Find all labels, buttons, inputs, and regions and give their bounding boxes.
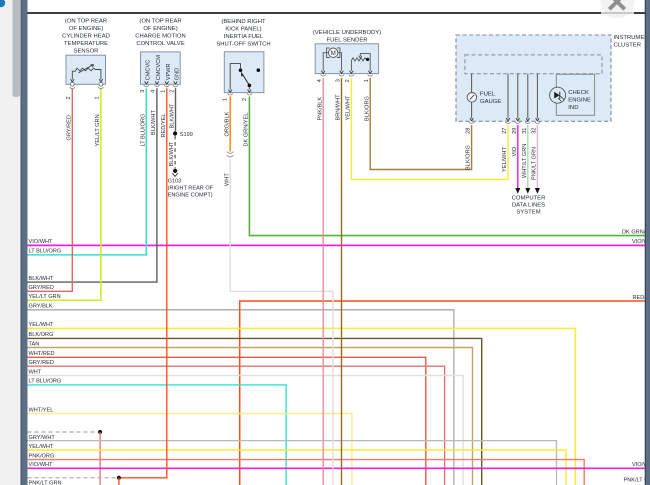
close button circle [601, 0, 635, 19]
svg-text:3: 3 [335, 79, 341, 82]
svg-text:(ON TOP REAR: (ON TOP REAR [65, 19, 107, 25]
svg-text:INERTIA FUEL: INERTIA FUEL [224, 34, 264, 40]
svg-text:2: 2 [345, 79, 351, 82]
svg-text:PNK/LT GRN: PNK/LT GRN [29, 481, 62, 485]
svg-text:CMCVC: CMCVC [145, 60, 151, 81]
svg-text:TAN: TAN [29, 341, 40, 347]
svg-text:RED/: RED/ [633, 295, 647, 301]
left slate bar [21, 0, 28, 485]
svg-text:DATA LINES: DATA LINES [512, 203, 545, 209]
wire BLK/WHT (bus to valve pin 4) [28, 88, 157, 282]
wire GRY/WHT dashed stub [28, 431, 98, 433]
svg-text:G103: G103 [168, 178, 182, 184]
svg-text:SHUT-OFF SWITCH: SHUT-OFF SWITCH [216, 42, 270, 48]
svg-text:LT BLU/ORG: LT BLU/ORG [29, 379, 62, 385]
svg-text:PNK/LT G: PNK/LT G [624, 478, 649, 484]
wire PNK/BLK (sender pin 4 down off-page) [322, 78, 324, 485]
svg-text:BLK/ORG: BLK/ORG [29, 332, 54, 338]
svg-text:TEMPERATURE: TEMPERATURE [64, 41, 108, 47]
svg-text:LT BLU/ORG: LT BLU/ORG [29, 249, 62, 255]
svg-text:M: M [331, 51, 336, 57]
svg-text:4: 4 [151, 90, 157, 93]
wire GRY/WHT (solid bus turning down) [28, 441, 557, 485]
wire BRN/WHT (sender pin 3 down off-page) [341, 78, 343, 485]
svg-text:PNK/LT GRN: PNK/LT GRN [532, 147, 538, 180]
svg-text:COMPUTER: COMPUTER [512, 196, 546, 202]
wire YEL/LT GRN (bus to sensor pin 1) [28, 89, 101, 300]
wire RED/YEL (valve pin 1 long run to bottom splice) [119, 88, 167, 485]
svg-text:CHARGE MOTION: CHARGE MOTION [135, 34, 185, 40]
svg-text:BLK/WHT: BLK/WHT [151, 110, 157, 135]
svg-text:WHT: WHT [224, 173, 230, 186]
ground G103 [173, 169, 177, 173]
wire PNK/LT GRN (cluster pin 32 to data lines) [536, 125, 538, 189]
svg-text:(VEHICLE UNDERBODY): (VEHICLE UNDERBODY) [313, 30, 381, 36]
svg-text:VIO/WHT: VIO/WHT [29, 239, 54, 245]
svg-text:3: 3 [140, 90, 146, 93]
wire BLK/ORG (sender pin 1 to cluster pin 28) [370, 78, 471, 170]
wire WHT/RED (bus turning down) [28, 357, 426, 485]
wire RED (right edge to vertical) [240, 301, 645, 485]
wire WHT (from connector, jog right, down off-page) [230, 159, 333, 485]
svg-text:27: 27 [502, 128, 508, 134]
check engine ind [556, 74, 594, 115]
wire LT BLU/ORG (lower bus turning down) [28, 385, 287, 485]
wire LT BLU/ORG (upper bus to valve pin 3) [28, 88, 147, 255]
wire YEL/WHT (lower bus turning down) [28, 450, 567, 485]
svg-text:CLUSTER: CLUSTER [614, 42, 642, 48]
svg-text:WHT/LT GRN: WHT/LT GRN [522, 144, 528, 178]
wire YEL/WHT (bus turning down) [28, 328, 576, 485]
svg-text:1: 1 [95, 96, 101, 99]
svg-text:VIO/WHT: VIO/WHT [29, 462, 54, 468]
svg-text:VIO: VIO [512, 146, 518, 156]
left gray gutter [0, 0, 21, 485]
svg-text:YEL/LT GRN: YEL/LT GRN [95, 114, 101, 146]
svg-text:PNK/BLK: PNK/BLK [317, 97, 323, 121]
wire BLK/WHT dashed to ground [174, 136, 176, 169]
svg-text:GAUGE: GAUGE [480, 99, 501, 105]
svg-text:S199: S199 [180, 132, 193, 138]
cluster pin arrows [470, 118, 474, 121]
svg-text:PNK/ORG: PNK/ORG [29, 453, 55, 459]
svg-text:WHT: WHT [29, 369, 42, 375]
svg-text:GRY/RED: GRY/RED [29, 285, 54, 291]
svg-text:OF ENGINE): OF ENGINE) [143, 26, 177, 32]
node S199 [173, 131, 177, 135]
wire WHT/YEL (bus turning down) [28, 414, 352, 485]
svg-text:1: 1 [364, 79, 370, 82]
fuel sender [313, 30, 381, 83]
svg-text:VPWR: VPWR [166, 63, 172, 80]
inertia fuel shut-off switch [216, 19, 270, 101]
svg-text:CYLINDER HEAD: CYLINDER HEAD [62, 34, 110, 40]
svg-text:YEL/WHT: YEL/WHT [29, 444, 54, 450]
svg-text:IND: IND [568, 105, 578, 111]
wire GRY/RED (bus to sensor pin 2) [28, 89, 73, 291]
wire PNK/ORG (bus turning down) [28, 460, 585, 485]
wire GRY/RED descending from splice [99, 432, 101, 485]
wire GRY/BLK (bus turning down) [28, 310, 454, 485]
svg-text:FUEL: FUEL [480, 91, 496, 97]
svg-text:(ON TOP REAR: (ON TOP REAR [139, 19, 181, 25]
svg-text:WHT/RED: WHT/RED [29, 351, 55, 357]
svg-text:YEL/WHT: YEL/WHT [29, 322, 54, 328]
in-line connector on ORG/BLK [227, 152, 234, 157]
svg-text:SYSTEM: SYSTEM [516, 210, 540, 216]
svg-text:BLK/ORG: BLK/ORG [466, 145, 472, 170]
svg-text:2: 2 [169, 90, 175, 93]
svg-text:ORG/BLK: ORG/BLK [224, 111, 230, 136]
svg-text:ENGINE: ENGINE [568, 98, 591, 104]
svg-text:BRN/WHT: BRN/WHT [336, 94, 342, 121]
fuel gauge [467, 93, 477, 103]
svg-text:1: 1 [161, 90, 167, 93]
svg-text:FUEL SENDER: FUEL SENDER [326, 37, 367, 43]
cylinder head temperature sensor [62, 19, 110, 100]
svg-text:KICK PANEL): KICK PANEL) [225, 27, 261, 33]
svg-text:CHECK: CHECK [568, 90, 589, 96]
svg-text:ENGINE COMPT): ENGINE COMPT) [168, 192, 213, 198]
svg-text:GRY/WHT: GRY/WHT [29, 435, 56, 441]
svg-text:28: 28 [466, 128, 472, 134]
svg-text:YEL/WHT: YEL/WHT [346, 95, 352, 120]
svg-text:BLK/WHT: BLK/WHT [169, 141, 175, 166]
wire PNK/LT GRN dashed stub [28, 477, 116, 479]
svg-text:(BEHIND RIGHT: (BEHIND RIGHT [221, 19, 266, 25]
svg-text:DK GRN/YEL: DK GRN/YEL [244, 113, 250, 147]
svg-text:LT BLU/ORG: LT BLU/ORG [140, 114, 146, 147]
instrument cluster [456, 35, 650, 134]
svg-text:BLK/WHT: BLK/WHT [170, 103, 176, 128]
scrollbar thumb [13, 0, 21, 97]
svg-text:4: 4 [317, 79, 323, 82]
charge motion control valve [135, 19, 185, 93]
svg-text:31: 31 [522, 128, 528, 134]
svg-text:YEL/LT GRN: YEL/LT GRN [29, 294, 61, 300]
svg-text:BLK/ORG: BLK/ORG [364, 96, 370, 121]
svg-text:1: 1 [223, 98, 229, 101]
svg-text:YEL/WHT: YEL/WHT [502, 147, 508, 172]
wire WHT/LT GRN (cluster pin 31 to data lines) [527, 125, 529, 189]
svg-text:(RIGHT REAR OF: (RIGHT REAR OF [168, 185, 214, 191]
svg-text:GND: GND [175, 68, 181, 80]
wire YEL/WHT (sender pin 2 to cluster pin 27) [351, 78, 508, 180]
svg-text:2: 2 [66, 96, 72, 99]
svg-text:OF ENGINE): OF ENGINE) [69, 26, 103, 32]
svg-text:INSTRUMENT: INSTRUMENT [614, 35, 650, 41]
svg-text:BLK/WHT: BLK/WHT [29, 276, 54, 282]
node splice dot on PNK/LT GRN [117, 476, 121, 480]
wire GRY/RED (lower bus turning down) [28, 366, 445, 485]
svg-text:CONTROL VALVE: CONTROL VALVE [136, 41, 184, 47]
wire TAN (bus turning down) [28, 348, 473, 485]
wire VIO/WHT (lower bus) [28, 467, 646, 469]
close button X [609, 0, 624, 9]
wire BLK/ORG (bus turning down) [28, 338, 482, 485]
right slate bar [645, 0, 650, 485]
svg-text:SENSOR: SENSOR [74, 49, 99, 55]
svg-text:GRY/RED: GRY/RED [66, 115, 72, 140]
svg-text:WHT/YEL: WHT/YEL [29, 407, 54, 413]
svg-text:GRY/RED: GRY/RED [29, 360, 54, 366]
svg-text:GRY/BLK: GRY/BLK [29, 304, 53, 310]
wire BLK/WHT (valve pin 2 to S199) [175, 88, 177, 131]
svg-text:CMCVCM: CMCVCM [156, 55, 162, 81]
top border line [28, 12, 646, 14]
wire WHT (bus turning down) [28, 376, 464, 485]
wire DK GRN/YEL (switch pin 2 to right edge) [249, 97, 645, 236]
wire VIO/WHT (upper bus) [28, 244, 646, 246]
svg-text:RED/YEL: RED/YEL [161, 114, 167, 138]
svg-text:29: 29 [512, 128, 518, 134]
svg-text:32: 32 [532, 128, 538, 134]
node splice dot on GRY/WHT [98, 430, 102, 434]
blue icon fragment [0, 0, 5, 7]
wire ORG/BLK (switch pin 1) [229, 97, 231, 152]
svg-text:2: 2 [242, 98, 248, 101]
wire VIO (cluster pin 29 to data lines) [517, 125, 519, 189]
